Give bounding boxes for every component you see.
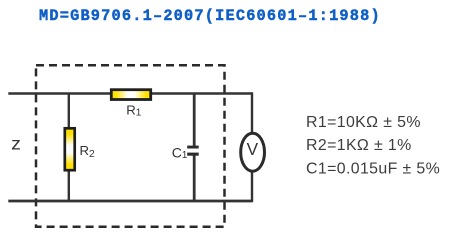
wire V branch upper [251,92,253,134]
wire bottom rail [8,200,252,203]
wire V branch lower [251,170,253,202]
wire R2 branch [68,94,70,202]
dashed enclosure box MD [36,65,225,227]
capacitor C1 bottom plate [187,153,199,156]
svg-text:R2: R2 [80,143,96,160]
resistor R1 [111,90,150,100]
svg-text:V: V [247,139,259,159]
svg-text:z: z [11,134,21,154]
svg-text:R1: R1 [126,103,142,119]
voltmeter V [241,133,265,171]
svg-text:C1=0.015uF ± 5%: C1=0.015uF ± 5% [306,160,440,177]
wire C1 branch upper [193,94,196,147]
svg-text:R2=1KΩ ± 1%: R2=1KΩ ± 1% [306,137,412,154]
wire top rail [8,92,252,95]
capacitor C1 top plate [187,146,199,149]
svg-text:R1=10KΩ ± 5%: R1=10KΩ ± 5% [306,114,421,131]
wire C1 branch lower [193,155,196,202]
resistor R2 [65,128,75,170]
svg-text:MD=GB9706.1–2007(IEC60601–1:19: MD=GB9706.1–2007(IEC60601–1:1988) [39,7,381,25]
svg-text:C1: C1 [172,145,188,161]
